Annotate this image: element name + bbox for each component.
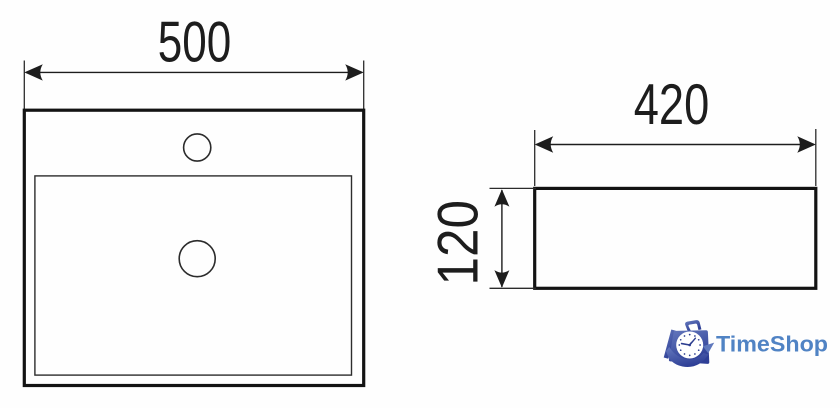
- side view body rectangle: [535, 188, 816, 288]
- arrowhead right: [797, 136, 816, 152]
- extension line left vertical: [534, 130, 536, 186]
- logo clock face: [676, 332, 703, 359]
- logo clock center dot: [688, 344, 691, 347]
- logo clock hour hand: [682, 344, 690, 345]
- extension line right: [363, 61, 365, 110]
- dimension line 420: [537, 144, 815, 146]
- logo bag left stripe: [664, 330, 676, 359]
- arrowhead right: [345, 64, 364, 80]
- svg-text:TimeShop: TimeShop: [716, 332, 828, 357]
- drain hole circle: [179, 241, 215, 277]
- extension line top horizontal: [490, 187, 537, 189]
- extension line left: [23, 61, 25, 110]
- arrowhead left: [535, 136, 554, 152]
- sink inner basin rectangle: [35, 176, 352, 375]
- arrowhead up: [494, 189, 509, 207]
- logo swoosh: [666, 347, 709, 367]
- svg-text:420: 420: [634, 73, 710, 137]
- logo clock ticks: [678, 334, 701, 357]
- svg-text:120: 120: [427, 200, 491, 286]
- logo bag body: [669, 330, 709, 364]
- extension line bottom horizontal: [490, 287, 537, 289]
- arrowhead left: [24, 64, 43, 80]
- svg-text:500: 500: [158, 11, 232, 75]
- logo swoosh arrowhead: [703, 343, 714, 354]
- extension line right vertical: [815, 129, 817, 186]
- dimension line 500: [26, 71, 362, 73]
- logo bag handle: [685, 320, 702, 332]
- dimension line 120 vertical: [501, 190, 503, 287]
- arrowhead down: [494, 270, 509, 288]
- faucet hole circle: [184, 134, 211, 161]
- logo clock minute hand: [689, 338, 696, 346]
- sink outer rim rectangle: [24, 110, 363, 385]
